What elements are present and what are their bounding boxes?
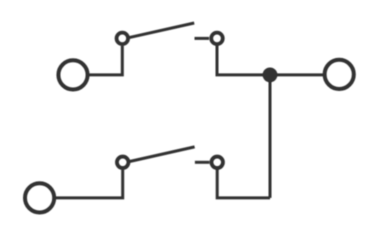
terminal circle T2 (right) <box>325 60 354 89</box>
switch S1 left pivot contact circle <box>117 33 129 45</box>
switch S2 fixed contact tick <box>195 161 210 164</box>
wire S1 right contact to node A <box>217 44 325 75</box>
switch S1 right contact circle <box>211 33 223 45</box>
switch S2 right contact circle <box>211 157 223 169</box>
junction node A (solid dot) <box>263 68 278 83</box>
terminal circle T3 (lower left) <box>25 183 54 212</box>
switch S1 blade (open, angled up-right) <box>129 23 195 38</box>
terminal circle T1 (upper left) <box>58 60 87 89</box>
switch S2 blade (open, angled up-right) <box>129 147 195 162</box>
wire trunk node A down to bottom bus <box>269 75 272 198</box>
wire S2 right contact to bottom bus and up to node A <box>217 168 270 198</box>
wire T1 to switch S1 left contact <box>88 46 123 75</box>
switch S1 fixed contact tick <box>195 37 210 40</box>
wire T3 to switch S2 left contact <box>54 170 123 198</box>
switch S2 left pivot contact circle <box>117 157 129 169</box>
